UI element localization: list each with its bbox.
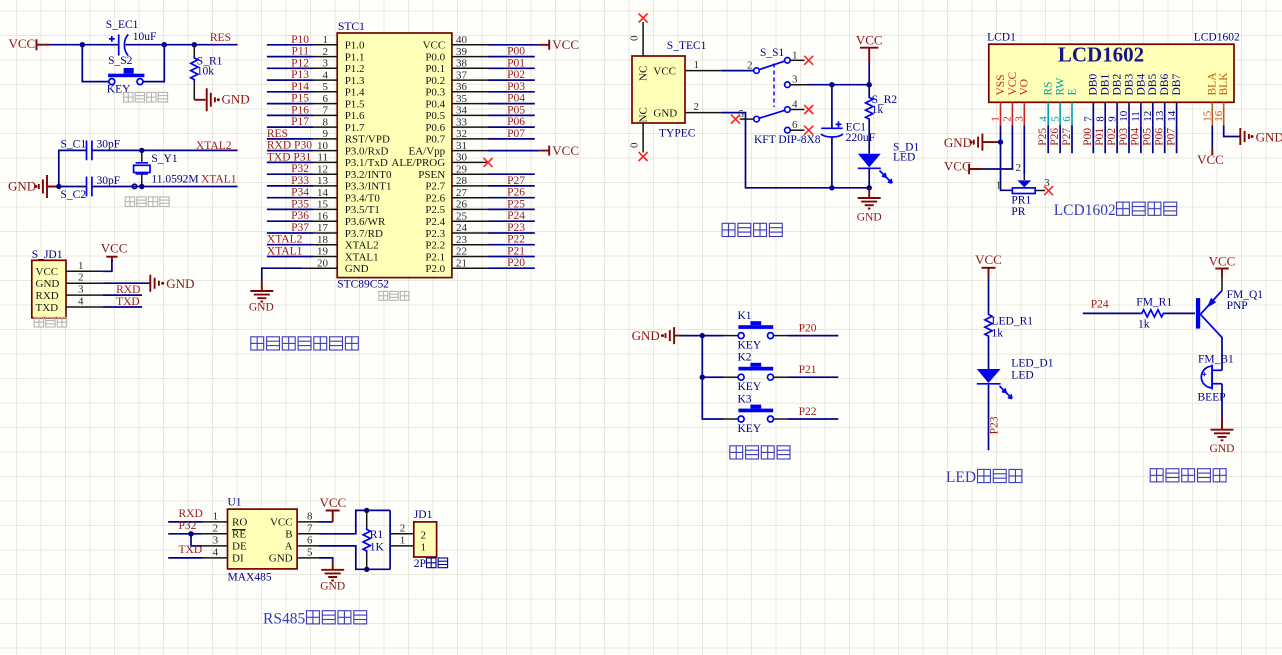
svg-text:VCC: VCC bbox=[856, 32, 883, 47]
svg-text:DB2: DB2 bbox=[1112, 74, 1124, 96]
max485 left stubs and numbers bbox=[203, 510, 228, 558]
transistor FM_Q1 PNP bbox=[1196, 289, 1263, 338]
svg-text:32: 32 bbox=[456, 128, 467, 140]
svg-text:NC: NC bbox=[638, 66, 650, 81]
svg-text:KEY: KEY bbox=[107, 84, 131, 96]
junction node bottom row bbox=[56, 184, 61, 189]
svg-text:P3.3/INT1: P3.3/INT1 bbox=[345, 181, 392, 193]
svg-text:DE: DE bbox=[232, 541, 247, 553]
wire pin7 B to loop top bbox=[319, 510, 390, 533]
svg-text:11: 11 bbox=[317, 152, 328, 164]
wire RXD pin1 bbox=[168, 521, 203, 523]
svg-text:GND: GND bbox=[222, 92, 250, 107]
svg-text:GND: GND bbox=[632, 328, 660, 343]
wires mcu right nets P27-P20 bbox=[488, 186, 535, 268]
wire C1 to XTAL2 bbox=[92, 149, 238, 151]
power port VCC (rs485) bbox=[320, 495, 347, 522]
svg-text:P32: P32 bbox=[179, 520, 197, 532]
svg-text:5: 5 bbox=[307, 546, 313, 558]
svg-text:P32: P32 bbox=[291, 163, 309, 175]
mcu U STC1 STC89C52 body bbox=[337, 21, 452, 290]
svg-text:XTAL1: XTAL1 bbox=[201, 173, 237, 185]
svg-text:6: 6 bbox=[792, 119, 798, 131]
svg-text:2: 2 bbox=[1002, 116, 1014, 122]
svg-text:6: 6 bbox=[323, 93, 329, 105]
svg-text:VCC: VCC bbox=[320, 495, 347, 510]
svg-text:1: 1 bbox=[996, 179, 1002, 191]
svg-text:10: 10 bbox=[1118, 110, 1130, 122]
svg-text:P33: P33 bbox=[291, 175, 309, 187]
buzzer FM_B1 BEEP bbox=[1198, 353, 1235, 403]
svg-text:P37: P37 bbox=[291, 222, 309, 234]
svg-text:P20: P20 bbox=[799, 323, 817, 335]
svg-text:P0.5: P0.5 bbox=[425, 110, 445, 122]
svg-text:1: 1 bbox=[323, 34, 329, 46]
svg-text:30pF: 30pF bbox=[97, 175, 121, 187]
ic U1 MAX485 body bbox=[228, 497, 298, 584]
svg-text:11.0592M: 11.0592M bbox=[151, 173, 198, 185]
no-ERC marker switch pin6 bbox=[804, 126, 813, 135]
svg-text:TYPEC: TYPEC bbox=[659, 128, 696, 140]
svg-text:7: 7 bbox=[323, 105, 329, 117]
svg-text:31: 31 bbox=[456, 140, 467, 152]
svg-text:14: 14 bbox=[1166, 110, 1178, 122]
lcd pin names vertical bbox=[995, 72, 1230, 96]
svg-text:P0.6: P0.6 bbox=[425, 122, 445, 134]
svg-text:15: 15 bbox=[1202, 110, 1214, 122]
wire switch to main (right side) bbox=[143, 45, 164, 82]
svg-text:LCD1: LCD1 bbox=[987, 32, 1016, 44]
svg-text:VCC: VCC bbox=[944, 159, 971, 174]
lcd module LCD1 LCD1602 body bbox=[987, 32, 1240, 103]
mcu pin names right column bbox=[391, 40, 445, 275]
resistor LED_R1 1k bbox=[985, 313, 1033, 369]
svg-text:16: 16 bbox=[1213, 110, 1225, 122]
svg-text:XTAL1: XTAL1 bbox=[267, 246, 303, 258]
svg-text:2: 2 bbox=[400, 523, 406, 535]
wire lcd pin16 BLK to gnd bbox=[1224, 125, 1240, 136]
svg-text:P3.1/TxD: P3.1/TxD bbox=[345, 157, 388, 169]
svg-text:DB0: DB0 bbox=[1088, 74, 1100, 96]
svg-text:GND: GND bbox=[320, 581, 345, 593]
svg-text:S_EC1: S_EC1 bbox=[106, 19, 139, 31]
svg-text:P35: P35 bbox=[291, 198, 309, 210]
svg-text:27: 27 bbox=[456, 187, 468, 199]
svg-text:VCC: VCC bbox=[552, 37, 579, 52]
switch K2 KEY bbox=[738, 352, 774, 394]
svg-text:P1.0: P1.0 bbox=[345, 40, 365, 52]
svg-text:P2.4: P2.4 bbox=[425, 216, 445, 228]
junction node gnd/vss bbox=[998, 139, 1003, 144]
no-ERC marker switch pin4 bbox=[804, 105, 813, 114]
pin NC bottom stub bbox=[629, 123, 644, 153]
svg-text:39: 39 bbox=[456, 46, 468, 58]
wire bottom row left bbox=[55, 186, 87, 188]
svg-text:RES: RES bbox=[210, 32, 231, 44]
svg-text:RXD: RXD bbox=[179, 508, 203, 520]
svg-text:P05: P05 bbox=[1142, 128, 1154, 146]
svg-text:RO: RO bbox=[232, 517, 247, 529]
svg-text:DB1: DB1 bbox=[1100, 74, 1112, 96]
potentiometer PR1 PR bbox=[996, 162, 1050, 218]
svg-text:FM_B1: FM_B1 bbox=[1198, 353, 1234, 365]
svg-text:5: 5 bbox=[323, 81, 329, 93]
svg-text:P25: P25 bbox=[507, 198, 525, 210]
svg-text:8: 8 bbox=[307, 510, 313, 522]
svg-text:XTAL2: XTAL2 bbox=[196, 140, 232, 152]
svg-text:TXD P31: TXD P31 bbox=[267, 151, 312, 163]
capacitor EC1 220uF electrolytic bbox=[821, 85, 875, 188]
power port VCC (buzzer) bbox=[1209, 253, 1236, 268]
svg-text:P1.6: P1.6 bbox=[345, 110, 365, 122]
wires lcd pins 4-14 down bbox=[1048, 125, 1176, 153]
no-ERC marker pot pin3 bbox=[1044, 186, 1053, 195]
net labels P27-P20 bbox=[507, 175, 525, 269]
svg-text:30pF: 30pF bbox=[97, 138, 121, 150]
svg-text:E: E bbox=[1066, 88, 1078, 95]
svg-text:P15: P15 bbox=[291, 93, 309, 105]
svg-text:2: 2 bbox=[421, 530, 427, 542]
wire lcd pin15 BLA down bbox=[1211, 125, 1213, 147]
wire pin31 to VCC bbox=[488, 150, 539, 152]
diode LED_D1 LED bbox=[977, 358, 1054, 399]
wire rail to JD1 pin2 bbox=[390, 533, 414, 535]
pin 3 switch stub bbox=[790, 84, 807, 86]
svg-text:P22: P22 bbox=[507, 234, 525, 246]
svg-text:12: 12 bbox=[1142, 111, 1154, 122]
svg-text:1: 1 bbox=[694, 59, 700, 71]
svg-text:5: 5 bbox=[739, 108, 745, 120]
net labels P10-P17 bbox=[291, 34, 309, 128]
power port GND (lcd right) bbox=[1240, 128, 1282, 145]
svg-text:P25: P25 bbox=[1037, 128, 1049, 146]
junction node bottom left of cap bbox=[829, 185, 834, 190]
power port VCC (pin40) bbox=[539, 37, 579, 52]
svg-text:P06: P06 bbox=[507, 116, 525, 128]
svg-text:40: 40 bbox=[456, 34, 468, 46]
svg-text:3: 3 bbox=[78, 284, 84, 296]
label 单片机 bbox=[379, 291, 409, 300]
svg-text:XTAL2: XTAL2 bbox=[267, 234, 303, 246]
svg-text:BLK: BLK bbox=[1218, 72, 1230, 96]
svg-text:K1: K1 bbox=[738, 310, 752, 322]
svg-text:5: 5 bbox=[1049, 116, 1061, 122]
power port GND (crystal) bbox=[8, 175, 55, 198]
svg-text:0: 0 bbox=[629, 35, 641, 41]
wire top row left (vertical + to C1) bbox=[59, 150, 87, 186]
svg-text:P2.7: P2.7 bbox=[425, 181, 445, 193]
junction node bottom under LED bbox=[867, 185, 872, 190]
junction node P32 bbox=[188, 531, 193, 536]
svg-text:P21: P21 bbox=[799, 364, 817, 376]
svg-text:NC: NC bbox=[638, 107, 650, 122]
svg-text:P13: P13 bbox=[291, 69, 309, 81]
svg-text:16: 16 bbox=[317, 210, 329, 222]
wire vcc to emitter bbox=[1221, 269, 1223, 279]
svg-text:RE: RE bbox=[232, 529, 246, 541]
svg-text:P16: P16 bbox=[291, 104, 309, 116]
svg-text:LCD1602: LCD1602 bbox=[1194, 32, 1240, 44]
power port VCC (lcd left) bbox=[944, 159, 983, 175]
svg-text:29: 29 bbox=[456, 163, 468, 175]
svg-text:P10: P10 bbox=[291, 34, 309, 46]
junction node at EC1 top bbox=[829, 82, 834, 87]
capacitor S_C2 30pF bbox=[61, 175, 121, 201]
svg-text:P26: P26 bbox=[1049, 128, 1061, 146]
capacitor S_EC1 10uF electrolytic bbox=[106, 19, 157, 55]
ground (buzzer) bbox=[1210, 418, 1235, 455]
svg-text:S_S1: S_S1 bbox=[760, 47, 785, 59]
svg-text:U1: U1 bbox=[228, 497, 242, 509]
max485 right stubs and numbers bbox=[297, 510, 319, 558]
svg-text:GND: GND bbox=[36, 278, 60, 290]
svg-text:RXD: RXD bbox=[116, 284, 140, 296]
wire pin4 TXD bbox=[103, 306, 142, 308]
net labels P25 P26 P27 vertical bbox=[1037, 128, 1073, 146]
svg-text:1: 1 bbox=[990, 116, 1002, 122]
svg-text:P34: P34 bbox=[291, 187, 309, 199]
svg-text:LED: LED bbox=[893, 151, 915, 163]
svg-text:4: 4 bbox=[323, 69, 329, 81]
wire collector to buzzer bbox=[1221, 337, 1223, 370]
svg-text:DI: DI bbox=[232, 553, 244, 565]
net labels P00-P07 bbox=[507, 46, 525, 140]
caption 下载口 bbox=[34, 317, 66, 327]
pin NC top stub bbox=[629, 22, 644, 56]
wire vcc to lcd pin2 bbox=[983, 125, 1013, 169]
svg-text:10uF: 10uF bbox=[133, 31, 157, 43]
svg-text:P1.3: P1.3 bbox=[345, 75, 365, 87]
svg-text:DB7: DB7 bbox=[1171, 74, 1183, 96]
svg-text:1: 1 bbox=[213, 510, 219, 522]
switch S_S2 KEY push button bbox=[107, 55, 145, 96]
switch K1 KEY bbox=[738, 310, 774, 352]
svg-text:7: 7 bbox=[307, 522, 313, 534]
svg-text:P2.3: P2.3 bbox=[425, 228, 445, 240]
svg-text:S_C2: S_C2 bbox=[61, 189, 87, 201]
ground (reset resistor) bbox=[194, 88, 249, 111]
svg-text:P3.6/WR: P3.6/WR bbox=[345, 216, 386, 228]
svg-text:P24: P24 bbox=[507, 210, 525, 222]
pin stubs S_JD1 1-4 bbox=[66, 270, 103, 272]
svg-text:EA/Vpp: EA/Vpp bbox=[409, 145, 446, 157]
wire switch branch down-left bbox=[82, 45, 108, 82]
wire P32 pin2 bbox=[168, 533, 203, 535]
svg-text:2: 2 bbox=[747, 59, 753, 71]
svg-text:P27: P27 bbox=[1061, 128, 1073, 146]
svg-text:P02: P02 bbox=[1106, 128, 1118, 146]
ground (S_JD1 pin2) bbox=[150, 275, 194, 292]
svg-text:P0.7: P0.7 bbox=[425, 134, 445, 146]
switch S_S1 KFT DIP-8X8 bbox=[739, 47, 821, 146]
svg-text:P20: P20 bbox=[507, 257, 525, 269]
svg-text:LCD1602: LCD1602 bbox=[1058, 43, 1144, 67]
junction node under VCC bbox=[867, 82, 872, 87]
svg-text:GND: GND bbox=[1256, 129, 1282, 144]
svg-text:TXD: TXD bbox=[36, 302, 59, 314]
svg-text:P1.5: P1.5 bbox=[345, 98, 365, 110]
svg-text:RW: RW bbox=[1055, 77, 1067, 95]
caption 蜂鸣器电路 bbox=[1150, 469, 1226, 482]
svg-text:JD1: JD1 bbox=[414, 509, 433, 521]
svg-text:S_Y1: S_Y1 bbox=[151, 153, 177, 165]
svg-text:10k: 10k bbox=[197, 65, 215, 77]
wire rail to JD1 pin1 bbox=[390, 545, 414, 547]
svg-text:GND: GND bbox=[944, 135, 972, 150]
svg-text:S_C1: S_C1 bbox=[61, 138, 87, 150]
connector S_TEC1 TYPEC bbox=[632, 40, 707, 140]
svg-text:P02: P02 bbox=[507, 69, 525, 81]
svg-text:KEY: KEY bbox=[738, 381, 762, 393]
wire buttons rail down bbox=[702, 336, 723, 419]
svg-text:GND: GND bbox=[1210, 443, 1235, 455]
svg-text:DB4: DB4 bbox=[1135, 74, 1147, 96]
wire pin5 to gnd bbox=[319, 558, 333, 561]
svg-text:P2.2: P2.2 bbox=[425, 240, 445, 252]
wire cap to RES node bbox=[126, 44, 238, 46]
wire pin3 to VCC rail bbox=[808, 84, 870, 86]
svg-text:P23: P23 bbox=[989, 416, 1001, 434]
svg-text:P11: P11 bbox=[292, 46, 310, 58]
wire pin8 to VCC bbox=[319, 521, 333, 523]
wire rail to K2 bbox=[702, 376, 723, 378]
svg-text:TXD: TXD bbox=[179, 544, 203, 556]
svg-text:P05: P05 bbox=[507, 104, 525, 116]
svg-text:38: 38 bbox=[456, 58, 468, 70]
svg-text:P14: P14 bbox=[291, 81, 309, 93]
svg-text:3: 3 bbox=[792, 74, 798, 86]
svg-text:3: 3 bbox=[1014, 116, 1026, 122]
svg-text:P12: P12 bbox=[291, 57, 309, 69]
svg-text:2P: 2P bbox=[414, 558, 426, 570]
svg-text:35: 35 bbox=[456, 93, 468, 105]
svg-text:1k: 1k bbox=[992, 327, 1004, 339]
svg-text:S_TEC1: S_TEC1 bbox=[667, 40, 707, 52]
svg-text:13: 13 bbox=[1154, 110, 1166, 122]
svg-text:PNP: PNP bbox=[1227, 300, 1248, 312]
svg-text:S_S2: S_S2 bbox=[108, 55, 133, 67]
svg-text:STC1: STC1 bbox=[338, 21, 365, 33]
ground (power circuit) bbox=[857, 188, 882, 224]
svg-text:P06: P06 bbox=[1154, 128, 1166, 146]
wire P24 to base resistor bbox=[1083, 312, 1141, 314]
svg-text:1: 1 bbox=[78, 260, 84, 272]
svg-text:XTAL2: XTAL2 bbox=[345, 240, 379, 252]
mcu pin names left column bbox=[345, 40, 392, 275]
switch K3 KEY bbox=[738, 393, 774, 435]
svg-text:K3: K3 bbox=[738, 393, 752, 405]
junction node right of cap bbox=[162, 42, 167, 47]
svg-text:RS: RS bbox=[1043, 81, 1055, 95]
svg-text:P0.2: P0.2 bbox=[425, 75, 445, 87]
svg-text:4: 4 bbox=[1037, 116, 1049, 122]
svg-text:K2: K2 bbox=[738, 352, 752, 364]
svg-text:7: 7 bbox=[1083, 116, 1095, 122]
wire pin2 to GND bbox=[103, 282, 150, 284]
svg-text:14: 14 bbox=[317, 187, 329, 199]
pin 5 switch stub bbox=[740, 118, 754, 120]
svg-text:26: 26 bbox=[456, 199, 468, 211]
power port GND (buttons) bbox=[632, 327, 681, 344]
no-ERC marker switch pin1 bbox=[804, 56, 813, 65]
wire lcd pin1 VSS down to pot bbox=[1001, 125, 1013, 190]
wire TXD pin4 bbox=[168, 557, 203, 559]
svg-text:34: 34 bbox=[456, 105, 468, 117]
svg-text:17: 17 bbox=[317, 222, 329, 234]
svg-text:25: 25 bbox=[456, 210, 468, 222]
svg-text:2: 2 bbox=[78, 272, 84, 284]
svg-text:PSEN: PSEN bbox=[418, 169, 445, 181]
svg-text:15: 15 bbox=[317, 199, 329, 211]
lcd pin numbers 1-16 bbox=[990, 110, 1225, 122]
svg-text:1: 1 bbox=[400, 535, 406, 547]
svg-text:P27: P27 bbox=[507, 175, 525, 187]
svg-text:24: 24 bbox=[456, 222, 468, 234]
svg-text:P3.2/INT0: P3.2/INT0 bbox=[345, 169, 392, 181]
svg-text:P1.2: P1.2 bbox=[345, 63, 365, 75]
svg-text:RXD: RXD bbox=[36, 290, 59, 302]
pin 4 switch stub bbox=[790, 109, 804, 111]
svg-text:P1.1: P1.1 bbox=[345, 51, 365, 63]
wire VCC down to rail bbox=[868, 62, 870, 85]
svg-text:P0.0: P0.0 bbox=[425, 51, 445, 63]
pin 1 VCC stub bbox=[685, 59, 722, 71]
net labels P00-P07 vertical bbox=[1082, 128, 1177, 146]
svg-text:P01: P01 bbox=[507, 57, 525, 69]
svg-text:VCC: VCC bbox=[1209, 253, 1236, 268]
svg-text:VCC: VCC bbox=[552, 143, 579, 158]
svg-text:220uF: 220uF bbox=[846, 132, 875, 144]
svg-text:P2.6: P2.6 bbox=[425, 193, 445, 205]
junction node loop top bbox=[364, 508, 369, 513]
svg-text:P00: P00 bbox=[507, 46, 525, 58]
max485 pin names bbox=[232, 517, 293, 565]
no-ERC marker NC top bbox=[639, 14, 648, 23]
resistor S_R2 1k bbox=[866, 85, 898, 154]
junction node at resistor branch bbox=[192, 42, 197, 47]
svg-text:23: 23 bbox=[456, 234, 468, 246]
svg-text:P22: P22 bbox=[799, 406, 817, 418]
svg-text:RST/VPD: RST/VPD bbox=[345, 134, 390, 146]
svg-text:DB5: DB5 bbox=[1147, 74, 1159, 96]
svg-text:2: 2 bbox=[694, 101, 700, 113]
svg-text:VCC: VCC bbox=[1007, 72, 1019, 96]
junction node buttons rail top bbox=[700, 333, 705, 338]
svg-text:22: 22 bbox=[456, 246, 467, 258]
net labels P32-P37 bbox=[291, 163, 309, 234]
svg-text:S_JD1: S_JD1 bbox=[32, 249, 63, 261]
wire P32 branch to pin3 bbox=[191, 534, 203, 546]
svg-text:VCC: VCC bbox=[36, 266, 59, 278]
power port VCC (S_JD1) bbox=[101, 240, 128, 262]
power port VCC (reset circuit) bbox=[9, 36, 51, 51]
no-ERC marker NC bottom bbox=[639, 152, 648, 161]
svg-text:VCC: VCC bbox=[101, 240, 128, 255]
svg-text:PR: PR bbox=[1011, 206, 1025, 218]
mcu right pins 40-21 stubs and numbers bbox=[452, 34, 488, 269]
power port VCC (power circuit) bbox=[856, 32, 883, 62]
svg-text:P1.7: P1.7 bbox=[345, 122, 365, 134]
svg-text:P36: P36 bbox=[291, 210, 309, 222]
mcu left pins 1-20 stubs and numbers bbox=[313, 34, 337, 269]
svg-text:P03: P03 bbox=[507, 81, 525, 93]
junction node buttons rail mid bbox=[700, 375, 705, 380]
svg-text:28: 28 bbox=[456, 175, 468, 187]
svg-text:2: 2 bbox=[213, 522, 219, 534]
svg-text:8: 8 bbox=[323, 116, 329, 128]
svg-text:P0.4: P0.4 bbox=[425, 98, 445, 110]
svg-text:P3.0/RxD: P3.0/RxD bbox=[345, 145, 389, 157]
